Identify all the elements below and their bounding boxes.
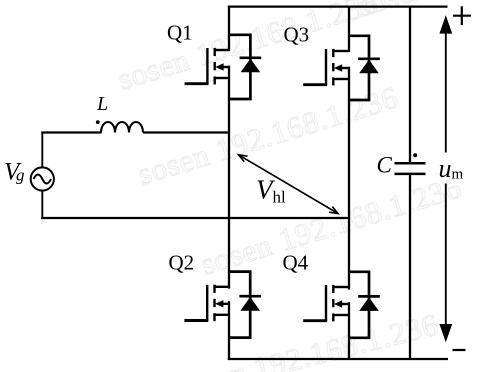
wire left leg upper (top rail to Q1 drain) [228,6,230,52]
capacitor C [395,163,426,174]
svg-text:Q4: Q4 [283,251,309,275]
wire return (Vg bottom to node B on right leg, crosses left leg) [41,217,349,219]
svg-text:C: C [377,153,393,178]
wire right leg upper (top rail to Q3 drain) [348,6,350,53]
transistor Q4 (NMOS with body diode) [303,272,380,338]
inductor L [101,122,143,132]
wire right leg mid (Q3 source to Q4 drain through node B) [348,67,350,290]
wire source Vg bottom lead [41,191,43,219]
arrow Vhl (double-headed, node A region to node B) [239,155,338,214]
wire inductor to node A (left leg midpoint) [143,131,230,133]
wire top rail [228,5,448,7]
transistor Q1 (NMOS with body diode) [185,35,262,99]
wire source Vg top lead [41,132,43,168]
arrow um (output voltage, up arrowhead) [439,15,452,342]
svg-text:g: g [16,166,25,185]
svg-text:Q1: Q1 [167,21,193,45]
svg-text:sosen 192.168.1.236: sosen 192.168.1.236 [171,306,442,372]
ac source Vg [31,167,54,190]
svg-text:sosen 192.168.1.236: sosen 192.168.1.236 [114,0,383,97]
wire left leg lower (Q2 source to bottom rail) [228,301,230,360]
wire left leg mid (Q1 source to Q2 drain through node A) [228,66,230,289]
transistor Q2 (NMOS with body diode) [184,272,261,338]
wire bottom rail [228,358,448,360]
plus terminal label [453,6,471,25]
polarity dot of L [96,120,100,124]
svg-text:sosen 192.168.1.236: sosen 192.168.1.236 [353,0,498,24]
svg-text:Q2: Q2 [169,251,195,275]
svg-text:hl: hl [273,188,287,207]
transistor Q3 (NMOS with body diode) [303,36,380,100]
svg-text:u: u [439,154,452,183]
polarity dot of C [413,153,417,157]
svg-text:Q3: Q3 [284,23,310,47]
svg-text:sosen 192.168.1.236: sosen 192.168.1.236 [197,169,466,281]
minus terminal label [453,349,466,351]
wire source top to inductor [41,131,101,133]
wire capacitor branch lower (C to bottom rail) [409,175,411,359]
wire capacitor branch upper (top rail to C) [409,7,411,163]
svg-text:L: L [96,93,108,115]
wire right leg lower (Q4 source to bottom rail) [348,302,350,360]
svg-text:m: m [452,167,464,183]
